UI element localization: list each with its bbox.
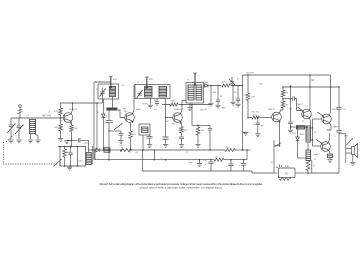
coupling capacitor C17 <box>292 96 294 100</box>
trap capacitor <box>149 135 151 136</box>
wire <box>112 97 114 108</box>
ground <box>58 139 63 142</box>
wire <box>182 100 186 102</box>
svg-text:10K: 10K <box>213 92 217 94</box>
wire <box>352 155 354 162</box>
bus wire A3 <box>235 149 251 151</box>
Q3 emitter arrow <box>180 122 182 124</box>
wire <box>311 160 313 173</box>
capacitor C12 <box>288 121 293 123</box>
transistor Q2 <box>125 113 135 123</box>
wire <box>11 117 60 119</box>
ground <box>230 102 235 105</box>
AGC branch wire <box>108 130 110 132</box>
wire <box>313 118 322 120</box>
svg-text:ANT 470: ANT 470 <box>42 115 52 118</box>
bus wire E <box>142 170 252 172</box>
AGC capacitor <box>108 111 110 121</box>
wire <box>273 168 275 173</box>
resistor R8 <box>221 84 231 87</box>
wire <box>297 146 299 158</box>
wire <box>142 135 144 150</box>
B minus top bus wire <box>243 74 331 76</box>
resistor R3 <box>70 125 74 132</box>
capacitor C7 <box>72 139 78 141</box>
variable capacitor C1B <box>18 118 20 126</box>
capacitor C14b <box>336 130 341 132</box>
svg-text:circuit return with a vacuum-t: circuit return with a vacuum-tube voltme… <box>140 186 223 190</box>
wire <box>210 86 212 103</box>
svg-text:100K: 100K <box>171 101 177 103</box>
volume control AGC <box>114 123 123 130</box>
svg-text:4.7K: 4.7K <box>251 97 256 99</box>
T1 primary winding <box>110 87 116 97</box>
wire <box>94 150 96 160</box>
svg-text:SW: SW <box>259 84 262 86</box>
capacitor C13 <box>336 107 341 109</box>
diode D3 <box>96 148 99 152</box>
svg-text:455KC: 455KC <box>142 103 149 105</box>
wire <box>71 132 73 147</box>
svg-text:SPK: SPK <box>344 136 349 138</box>
wire <box>313 145 321 147</box>
svg-text:2SB77: 2SB77 <box>314 154 321 156</box>
thermistor <box>297 126 305 130</box>
svg-text:2SA102: 2SA102 <box>174 108 183 111</box>
wire <box>166 117 173 119</box>
wire <box>280 110 284 113</box>
wire <box>330 75 331 115</box>
T2 primary winding <box>145 87 153 98</box>
wire <box>290 127 292 130</box>
wire <box>77 147 79 167</box>
dot <box>282 98 284 100</box>
wire <box>329 158 331 160</box>
resistor R18 <box>120 148 132 151</box>
wire <box>338 87 340 107</box>
T1 slug arrow <box>110 77 112 88</box>
ground <box>208 103 213 106</box>
wire <box>97 102 103 104</box>
ground <box>350 162 355 165</box>
wire <box>61 102 98 104</box>
tone arrow <box>347 138 353 145</box>
svg-text:9V: 9V <box>285 173 288 176</box>
resistor R15 <box>214 158 224 161</box>
battery BT1 <box>278 168 295 178</box>
wire <box>94 81 111 83</box>
T1 secondary winding <box>107 108 118 111</box>
choke coil <box>104 148 110 152</box>
wire <box>232 86 234 102</box>
wire <box>282 87 284 90</box>
svg-text:OSC: OSC <box>79 161 84 163</box>
wire <box>339 133 346 135</box>
wire <box>296 172 309 174</box>
detector diode D1 <box>204 85 205 87</box>
bus wire A2 <box>132 149 226 151</box>
emitter resistor R13 <box>328 154 333 158</box>
variable capacitor C1A <box>10 118 12 125</box>
wire <box>309 117 310 126</box>
resistor R1 <box>59 108 63 115</box>
wire <box>165 99 167 118</box>
ground <box>288 130 293 133</box>
wire <box>307 142 309 150</box>
capacitor T2 bypass <box>156 99 158 102</box>
wire <box>60 103 62 108</box>
wire <box>260 117 272 119</box>
T2 slug arrow <box>146 77 148 88</box>
T3 secondary winding <box>196 85 202 100</box>
ground <box>327 160 332 163</box>
oscillator bottom wire <box>60 165 86 167</box>
wire <box>162 104 211 106</box>
transistor Q3 <box>173 113 183 123</box>
B bus wire <box>283 86 339 88</box>
wire <box>311 139 313 141</box>
electrolytic C15 <box>230 160 232 164</box>
wire <box>70 121 73 125</box>
transistor Q6 <box>322 114 332 124</box>
ground <box>179 145 184 148</box>
bus wire C2 <box>224 159 247 161</box>
wire <box>308 172 339 174</box>
svg-text:47K: 47K <box>222 82 226 84</box>
transistor Q1 <box>63 113 73 123</box>
svg-text:1N60: 1N60 <box>300 134 306 136</box>
svg-text:AGC: AGC <box>137 108 142 111</box>
bus wire C <box>95 159 214 161</box>
resistor R6 <box>171 103 179 106</box>
transistor Q5 <box>302 109 312 119</box>
T1 trimmer <box>100 91 104 93</box>
svg-text:2SB77: 2SB77 <box>333 127 340 129</box>
wire <box>283 98 292 100</box>
resistor R14 <box>225 148 235 151</box>
on-off switch <box>273 140 275 168</box>
transistor Q7 <box>321 142 331 152</box>
speaker <box>352 147 355 155</box>
wire <box>290 86 292 122</box>
coupling capacitor C11 <box>257 117 259 119</box>
transistor Q4 <box>272 112 282 122</box>
ground <box>243 132 248 135</box>
ground <box>195 144 200 147</box>
wire <box>93 82 95 160</box>
volume resistor R17 <box>197 125 199 127</box>
wire <box>181 121 182 126</box>
ground <box>67 167 72 170</box>
driver transformer T4 <box>306 126 311 142</box>
svg-text:AVC: AVC <box>222 107 227 110</box>
oscillator bus wire <box>58 146 86 148</box>
wire <box>96 103 98 150</box>
T3 primary winding <box>188 85 194 100</box>
capacitor C5 <box>70 147 72 153</box>
wire <box>329 133 330 143</box>
wire <box>311 127 313 129</box>
T3 slug arrow <box>194 73 196 85</box>
svg-text:50µf: 50µf <box>189 162 193 164</box>
ground <box>148 105 153 108</box>
resistor R16 <box>306 161 310 171</box>
antenna <box>19 105 22 108</box>
IF transformer T2 box <box>135 85 170 99</box>
ground <box>16 140 21 143</box>
wire <box>247 75 249 93</box>
ground <box>35 140 40 143</box>
Q4 emitter arrow <box>279 120 281 122</box>
Q1 emitter arrow <box>70 122 72 124</box>
capacitor C9 <box>237 86 239 99</box>
wire <box>130 139 132 151</box>
ground <box>8 140 13 143</box>
wire <box>71 103 73 114</box>
wire <box>61 117 65 119</box>
svg-text:4 B1: 4 B1 <box>285 166 290 168</box>
IF trap box <box>139 124 150 135</box>
ground <box>187 108 192 111</box>
wire <box>133 85 135 114</box>
oscillator coil L2 <box>86 153 91 165</box>
svg-text:ON-OFF: ON-OFF <box>246 73 254 75</box>
wire <box>181 133 183 137</box>
wire <box>246 150 248 160</box>
ground <box>163 144 168 147</box>
svg-text:2SB75: 2SB75 <box>268 109 275 111</box>
wire <box>294 99 302 111</box>
capacitor C8 <box>217 86 219 100</box>
IF transformer T3 box <box>186 83 204 104</box>
ground <box>28 140 33 143</box>
resistor R4 <box>64 147 66 150</box>
ground <box>199 160 201 163</box>
Q7 emitter arrow <box>316 140 322 144</box>
svg-text:10K: 10K <box>54 127 58 129</box>
wire <box>242 75 244 150</box>
Q6 emitter arrow <box>317 112 323 116</box>
wire <box>329 150 331 154</box>
diode D2 <box>297 132 299 137</box>
IF transformer T1 box <box>98 84 119 99</box>
svg-text:10µf: 10µf <box>292 133 297 135</box>
wire <box>118 110 125 118</box>
electrolytic C14 <box>210 160 212 162</box>
wire <box>247 101 249 118</box>
trimmer C6 <box>54 159 62 167</box>
Q5 emitter arrow <box>298 107 304 111</box>
resistor R5 <box>129 131 133 139</box>
svg-text:2SB77: 2SB77 <box>296 104 303 106</box>
trimmer C10 <box>231 84 233 86</box>
bus wire A <box>88 149 95 151</box>
wire <box>189 103 191 107</box>
wire <box>59 147 61 167</box>
svg-text:5µf: 5µf <box>261 125 264 127</box>
bypass capacitor <box>120 131 122 133</box>
T2 secondary winding <box>159 87 167 98</box>
wire <box>181 101 183 114</box>
speaker leads <box>346 148 352 150</box>
wire <box>30 134 32 140</box>
svg-text:VOL 10K: VOL 10K <box>251 112 260 114</box>
wire <box>251 171 253 173</box>
resistor R11 <box>281 90 285 97</box>
resistor R7 <box>180 127 184 134</box>
electrolytic C16 <box>243 160 245 163</box>
resistor R12 <box>282 99 284 102</box>
wire <box>309 75 311 109</box>
wire <box>153 150 155 160</box>
svg-text:47K: 47K <box>54 111 58 113</box>
wire <box>85 147 87 167</box>
volume wire <box>248 117 252 119</box>
resistor R10 <box>252 116 260 119</box>
AGC diode <box>102 106 104 114</box>
dashed shield wire <box>4 142 58 164</box>
ground <box>147 145 152 148</box>
wire <box>192 105 210 126</box>
antenna coil L1 <box>30 120 36 134</box>
output transformer T5 <box>306 150 311 161</box>
svg-text:2SA101: 2SA101 <box>69 108 78 111</box>
ground <box>64 141 69 144</box>
dashed gang link <box>6 128 21 142</box>
svg-text:1N34: 1N34 <box>203 82 209 84</box>
svg-text:5µf: 5µf <box>254 124 257 126</box>
svg-text:9V: 9V <box>312 80 315 82</box>
dot <box>60 117 62 119</box>
wire <box>130 122 132 131</box>
neutralizing capacitor <box>209 125 211 128</box>
wire <box>150 99 152 105</box>
resistor R9 <box>246 93 250 101</box>
wire <box>327 123 332 130</box>
wire <box>92 146 94 164</box>
svg-text:+: + <box>276 166 278 170</box>
Q2 emitter arrow <box>132 121 134 123</box>
wire <box>274 121 279 146</box>
resistor R2 <box>59 124 63 131</box>
detector bus wire <box>211 85 243 87</box>
T2 trimmer <box>137 93 141 95</box>
